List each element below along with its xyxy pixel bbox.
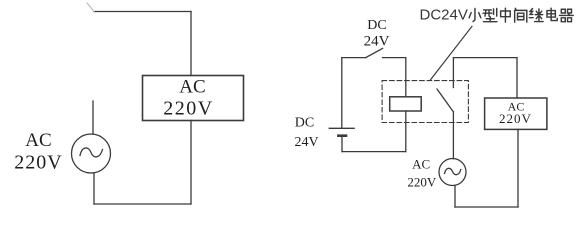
label char 小 [469,9,481,22]
label char 型 [483,8,497,21]
label char 中 [501,8,511,22]
svg-text:220V: 220V [14,152,62,174]
relay K1 dashed outline [382,81,468,123]
wire battery bottom lead [341,137,343,152]
svg-text:24V: 24V [364,34,390,50]
load box AC 220V (right circuit) [485,98,547,129]
svg-text:AC: AC [179,77,205,98]
wire to right box top [516,58,518,98]
AC source G1 circle [72,134,111,173]
relay contact K1-1 blade [437,89,453,112]
switch S2 blade [366,48,383,57]
AC source G2 circle [439,159,466,186]
wire DC left vertical [341,58,343,128]
relay contact K1-1 top terminal [452,58,454,88]
svg-text:DC: DC [367,18,386,33]
relay K1 coil [390,97,422,111]
battery B1 short plate [338,134,346,137]
svg-text:DC: DC [295,115,314,130]
wire AC top [453,57,517,59]
wire top of left circuit [94,11,191,13]
svg-text:AC: AC [25,130,51,151]
relay contact K1-1 bottom terminal [452,112,454,159]
svg-text:24V: 24V [294,135,318,150]
sine symbol in G2 [445,168,461,174]
svg-text:220V: 220V [163,98,213,120]
wire right box bottom [517,129,519,207]
label char 电 [547,8,557,20]
wire right vertical to load box [190,12,192,76]
svg-text:220V: 220V [499,111,532,126]
wire DC bottom [342,151,406,153]
wire coil bottom lead [405,111,407,152]
sine symbol in G1 [80,148,103,157]
wire source G2 bottom lead [454,186,456,207]
label char 器 [560,9,574,21]
svg-text:DC24V: DC24V [420,7,468,24]
wire source bottom lead [93,173,95,204]
wire coil top lead [405,58,407,97]
svg-text:AC: AC [412,156,430,171]
label char 间 [515,8,527,22]
pointer line from label to relay [430,26,472,80]
wire switch right terminal [383,57,406,59]
battery B1 long plate [329,127,354,129]
wire bottom of left circuit [94,203,191,205]
switch S2 (DC side) left terminal [342,57,366,59]
switch S1 lever (faint, cropped at top) [87,3,95,12]
svg-text:220V: 220V [407,174,437,189]
wire from box bottom [190,121,192,205]
load box AC 220V (left circuit) [143,76,244,121]
wire source top lead (open to switch) [92,101,94,134]
wire AC bottom [455,206,518,208]
label char 继 [529,9,543,22]
